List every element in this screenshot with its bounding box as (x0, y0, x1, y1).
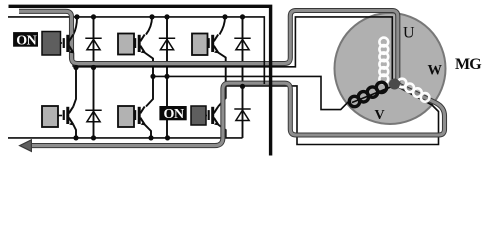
svg-text:ON: ON (163, 107, 183, 122)
svg-text:V: V (375, 108, 385, 123)
svg-text:ON: ON (16, 34, 36, 49)
svg-text:MG: MG (455, 56, 482, 73)
svg-text:W: W (428, 63, 443, 79)
svg-text:U: U (403, 25, 415, 42)
